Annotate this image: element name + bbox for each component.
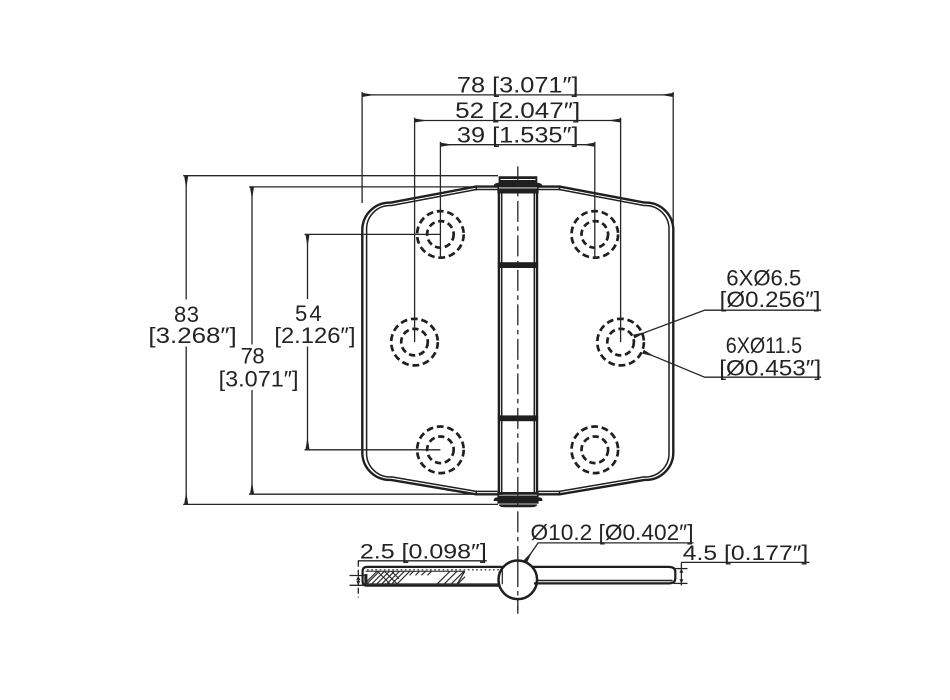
dim 39 ext left	[439, 142, 441, 259]
hole top-right inner	[582, 221, 609, 248]
dim 78 top ext right	[672, 92, 674, 230]
dim 4.5 leader underline	[681, 561, 809, 563]
dim 54 ext bottom	[305, 449, 441, 451]
side left leaf hatch end slant	[457, 571, 465, 584]
axis centerline inside knuckle circle	[517, 561, 519, 614]
side left leaf inner left heavy edge	[364, 574, 367, 584]
leader 6xD11.5	[643, 352, 821, 378]
svg-text:78: 78	[241, 343, 265, 368]
small dims on side view	[350, 543, 810, 598]
hole top-right outer	[572, 211, 619, 258]
leaf right outer outline	[538, 187, 674, 495]
dim 52 line	[415, 120, 621, 122]
dim 4.5 arrows	[679, 569, 683, 584]
dim 54 vertical line lower part	[307, 347, 309, 450]
svg-text:39 [1.535″]: 39 [1.535″]	[457, 123, 579, 148]
dim 78 left vertical line lower part	[251, 390, 253, 494]
section hatching	[366, 571, 466, 584]
svg-text:6XØ11.5: 6XØ11.5	[726, 333, 802, 358]
hole mid-right inner	[607, 329, 634, 356]
dim 54 ext top	[305, 233, 441, 235]
dim 39 line	[440, 144, 594, 146]
barrel outer line right	[536, 190, 538, 494]
hole bottom-left outer	[417, 427, 464, 474]
svg-text:4.5 [0.177″]: 4.5 [0.177″]	[683, 542, 809, 565]
svg-text:[3.268″]: [3.268″]	[148, 323, 236, 348]
side left leaf section end vertical	[501, 569, 503, 585]
dim 83 vertical line lower part	[185, 347, 187, 505]
hinge centerline (axis)	[517, 166, 519, 613]
leaf left outer outline	[362, 187, 498, 495]
svg-text:52 [2.047″]: 52 [2.047″]	[455, 98, 580, 123]
pin cap bottom	[494, 492, 543, 504]
dim 78 left vertical line upper part	[251, 187, 253, 345]
hole mid-left inner	[401, 329, 428, 356]
svg-text:78 [3.071″]: 78 [3.071″]	[457, 73, 579, 98]
dim 54 vertical line upper part	[307, 234, 309, 299]
dim 78 left ext bottom	[249, 493, 503, 495]
svg-text:2.5 [0.098″]: 2.5 [0.098″]	[360, 541, 487, 564]
dim 52 ext right	[620, 118, 622, 343]
hole bottom-left inner	[427, 437, 454, 464]
pin inner line right	[533, 190, 535, 493]
dim 2.5 tick bottom	[350, 584, 367, 586]
leaf right kink tick bottom	[559, 491, 561, 496]
dimension texts	[148, 73, 821, 565]
pin cap top	[494, 176, 543, 193]
hatch lines	[366, 571, 466, 584]
side left leaf seam dotted line	[367, 569, 500, 571]
hole top-left inner	[427, 221, 454, 248]
pin inner line left	[501, 190, 503, 493]
hole top-left outer	[417, 211, 464, 258]
dim 2.5 leader underline	[358, 560, 487, 562]
svg-text:[2.126″]: [2.126″]	[274, 323, 355, 348]
side left leaf hatch top boundary	[366, 570, 465, 572]
cap top knurl hairline 2	[499, 187, 537, 189]
cap bottom knurl hairline 1	[499, 494, 537, 496]
dim 78 top line	[362, 94, 673, 96]
side left leaf bottom heavy line	[364, 583, 500, 585]
dim 4.5 vertical line	[680, 562, 682, 585]
svg-text:[Ø0.256″]: [Ø0.256″]	[720, 287, 821, 312]
dim 4.5 tick bottom	[674, 582, 688, 584]
pin cap bottom edge dish	[499, 504, 537, 507]
leaf right kink tick top	[559, 185, 561, 190]
hole mid-right outer	[597, 319, 644, 366]
hole bottom-right inner	[582, 437, 609, 464]
leaf right inner edge line	[538, 190, 669, 492]
dim 78 left ext top	[249, 186, 497, 188]
dim 2.5 arrows	[356, 576, 360, 586]
side view left leaf outline (sectioned)	[363, 567, 503, 586]
dim 52 ext left	[414, 118, 416, 343]
knuckle circle (pin section)	[499, 561, 538, 600]
screw holes: outer = countersink, inner = hole	[391, 211, 644, 473]
leaf left kink tick bottom	[475, 491, 477, 496]
leaf left inner edge line	[367, 190, 498, 492]
leaf left kink tick top	[475, 185, 477, 190]
dim 2.5 vertical line	[357, 561, 359, 598]
dim 2.5 tick top	[350, 575, 367, 577]
cap top knurl hairline 1	[501, 179, 536, 181]
dim 83 vertical line upper part	[185, 176, 187, 300]
leader 6xD6.5	[634, 310, 821, 336]
dim 83 ext bottom	[183, 503, 498, 505]
dim 78 top ext left	[361, 92, 363, 203]
hatch reverse lines	[378, 571, 400, 584]
side right leaf inner bottom line	[536, 580, 673, 582]
dim 39 ext right	[594, 142, 596, 259]
hole bottom-right outer	[572, 427, 619, 474]
barrel outer line left	[498, 190, 500, 494]
dim 4.5 tick top	[674, 568, 688, 570]
hole mid-left outer	[391, 319, 438, 366]
svg-text:[Ø0.453″]: [Ø0.453″]	[719, 355, 821, 380]
side view right leaf outline	[532, 567, 675, 584]
knuckle joint band lower	[498, 415, 538, 421]
dim 83 ext top	[183, 175, 498, 177]
knuckle joint band upper	[498, 262, 538, 268]
leader D10.2	[525, 543, 693, 562]
svg-text:Ø10.2 [Ø0.402″]: Ø10.2 [Ø0.402″]	[531, 520, 694, 545]
svg-text:[3.071″]: [3.071″]	[219, 366, 299, 391]
